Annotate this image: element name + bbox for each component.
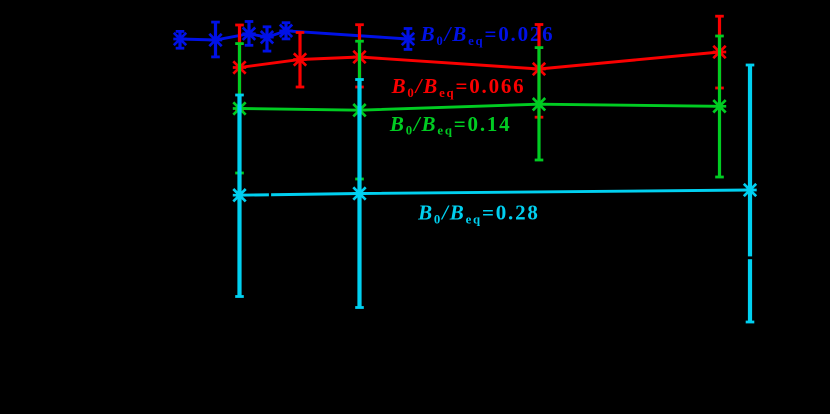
gap in cyan v-bar 3 [745,256,755,259]
cyan pt1 error bar [237,95,241,297]
green pt1 error bar [238,44,241,173]
green pt2 marker [353,104,366,117]
green pt1 marker [233,102,246,115]
blue pt2 error bar [214,22,217,57]
green pt4 marker [713,100,726,113]
red pt2 error bar [298,33,301,88]
blue pt4 error bar [265,27,268,51]
green line [240,104,720,110]
cyan pt2 marker [353,187,366,200]
red pt4 marker [532,62,545,75]
green pt4 error bar [718,36,721,177]
red pt5 marker [713,45,726,58]
red pt1 error bar [238,25,241,110]
cyan line [240,190,751,195]
blue pt1 error bar [178,31,181,48]
blue pt3 marker [242,27,255,40]
cyan pt3 error bar [748,65,752,322]
red pt2 marker [293,53,306,66]
blue line [180,31,408,40]
blue pt1 marker [173,32,186,45]
red pt1 marker [233,61,246,74]
blue pt3 error bar [247,22,250,46]
red pt3 error bar [358,25,361,87]
cyan pt2 error bar [357,80,361,308]
green pt3 marker [532,98,545,111]
gap in cyan h-line [269,191,271,199]
green pt2 error bar [358,41,361,179]
red pt5 error bar [718,16,721,88]
green pt3 error bar [537,48,540,160]
blue pt6 error bar [406,29,409,50]
blue pt4 marker [260,31,273,44]
blue pt5 marker [279,24,292,37]
red pt4 error bar [537,25,540,118]
red line [240,52,720,69]
cyan pt3 marker [743,183,756,196]
blue pt2 marker [209,33,222,46]
cyan pt1 marker [233,189,246,202]
blue pt5 error bar [284,23,287,39]
blue pt6 marker [401,32,414,45]
red pt3 marker [353,50,366,63]
